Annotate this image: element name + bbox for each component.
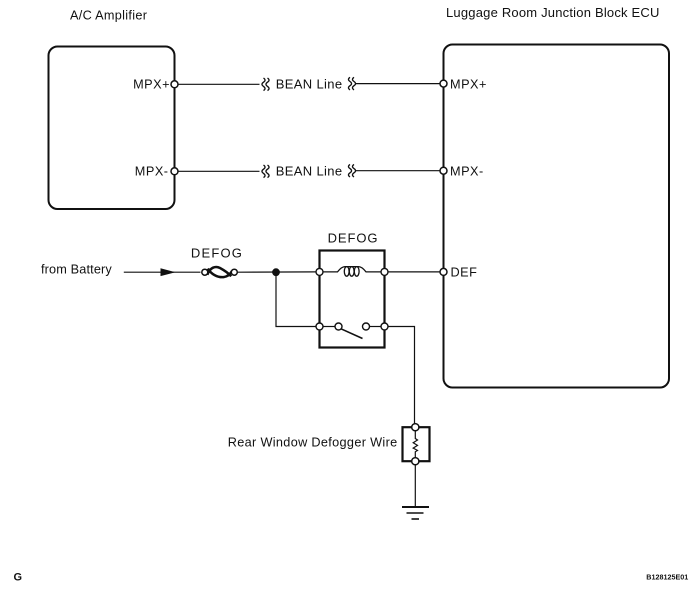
svg-text:DEF: DEF: [451, 265, 478, 279]
wire junction down to switch input: [276, 272, 316, 326]
wire MPX+ right segment: [356, 83, 441, 85]
terminal MPX- on ECU box: [440, 167, 447, 174]
svg-text:MPX-: MPX-: [135, 165, 169, 179]
svg-text:BEAN Line: BEAN Line: [276, 164, 343, 179]
resistor zigzag element: [413, 431, 417, 458]
wire MPX- left segment: [178, 170, 260, 172]
svg-text:BEAN Line: BEAN Line: [276, 76, 343, 91]
svg-text:MPX+: MPX+: [450, 77, 487, 91]
relay box DEFOG: [320, 251, 385, 348]
ground: [402, 507, 429, 519]
svg-text:B128125E01: B128125E01: [646, 572, 688, 581]
svg-text:G: G: [14, 571, 23, 583]
relay switch moving contact: [363, 323, 370, 330]
wire defogger to ground: [414, 465, 416, 507]
wire MPX+ left segment: [178, 83, 260, 85]
junction node: [272, 268, 280, 276]
box U2 Luggage Room Junction Block ECU: [444, 45, 670, 388]
terminal MPX+ on ECU box: [440, 80, 447, 87]
relay switch terminal right: [381, 323, 388, 330]
wire coil to DEF pin: [388, 271, 440, 273]
relay coil: [323, 267, 381, 277]
wire switch output down to defogger: [388, 327, 415, 424]
svg-text:DEFOG: DEFOG: [191, 245, 243, 260]
svg-text:MPX-: MPX-: [450, 165, 484, 179]
svg-text:MPX+: MPX+: [133, 77, 170, 91]
terminal DEF on ECU box: [440, 268, 447, 275]
wire MPX- right segment: [356, 170, 441, 172]
arrowhead on battery wire: [161, 268, 176, 276]
wire from battery to fuse: [124, 271, 201, 273]
relay coil terminal right: [381, 268, 388, 275]
terminal MPX+ on A/C box: [171, 81, 178, 88]
relay switch wire stubs: [323, 326, 335, 328]
relay switch blade: [341, 329, 363, 339]
break symbol squiggle pair 4: [348, 164, 355, 177]
svg-text:A/C Amplifier: A/C Amplifier: [70, 8, 148, 22]
relay coil terminal left: [316, 268, 323, 275]
relay switch terminal left: [316, 323, 323, 330]
resistor box Rear Window Defogger Wire: [403, 427, 430, 461]
break symbol squiggle pair 2: [348, 77, 355, 90]
relay switch pivot contact: [335, 323, 342, 330]
defogger terminal bottom: [412, 458, 419, 465]
wire fuse to relay coil: [237, 271, 316, 273]
fuse DEFOG: [202, 267, 238, 277]
terminal MPX- on A/C box: [171, 168, 178, 175]
svg-text:Luggage Room Junction Block EC: Luggage Room Junction Block ECU: [446, 5, 660, 20]
break symbol squiggle pair 1: [262, 78, 269, 91]
break symbol squiggle pair 3: [262, 165, 269, 178]
svg-text:Rear Window Defogger Wire: Rear Window Defogger Wire: [228, 435, 398, 449]
svg-text:DEFOG: DEFOG: [328, 230, 379, 245]
defogger terminal top: [412, 424, 419, 431]
box U1 A/C Amplifier: [49, 47, 175, 210]
svg-text:from Battery: from Battery: [41, 263, 112, 277]
